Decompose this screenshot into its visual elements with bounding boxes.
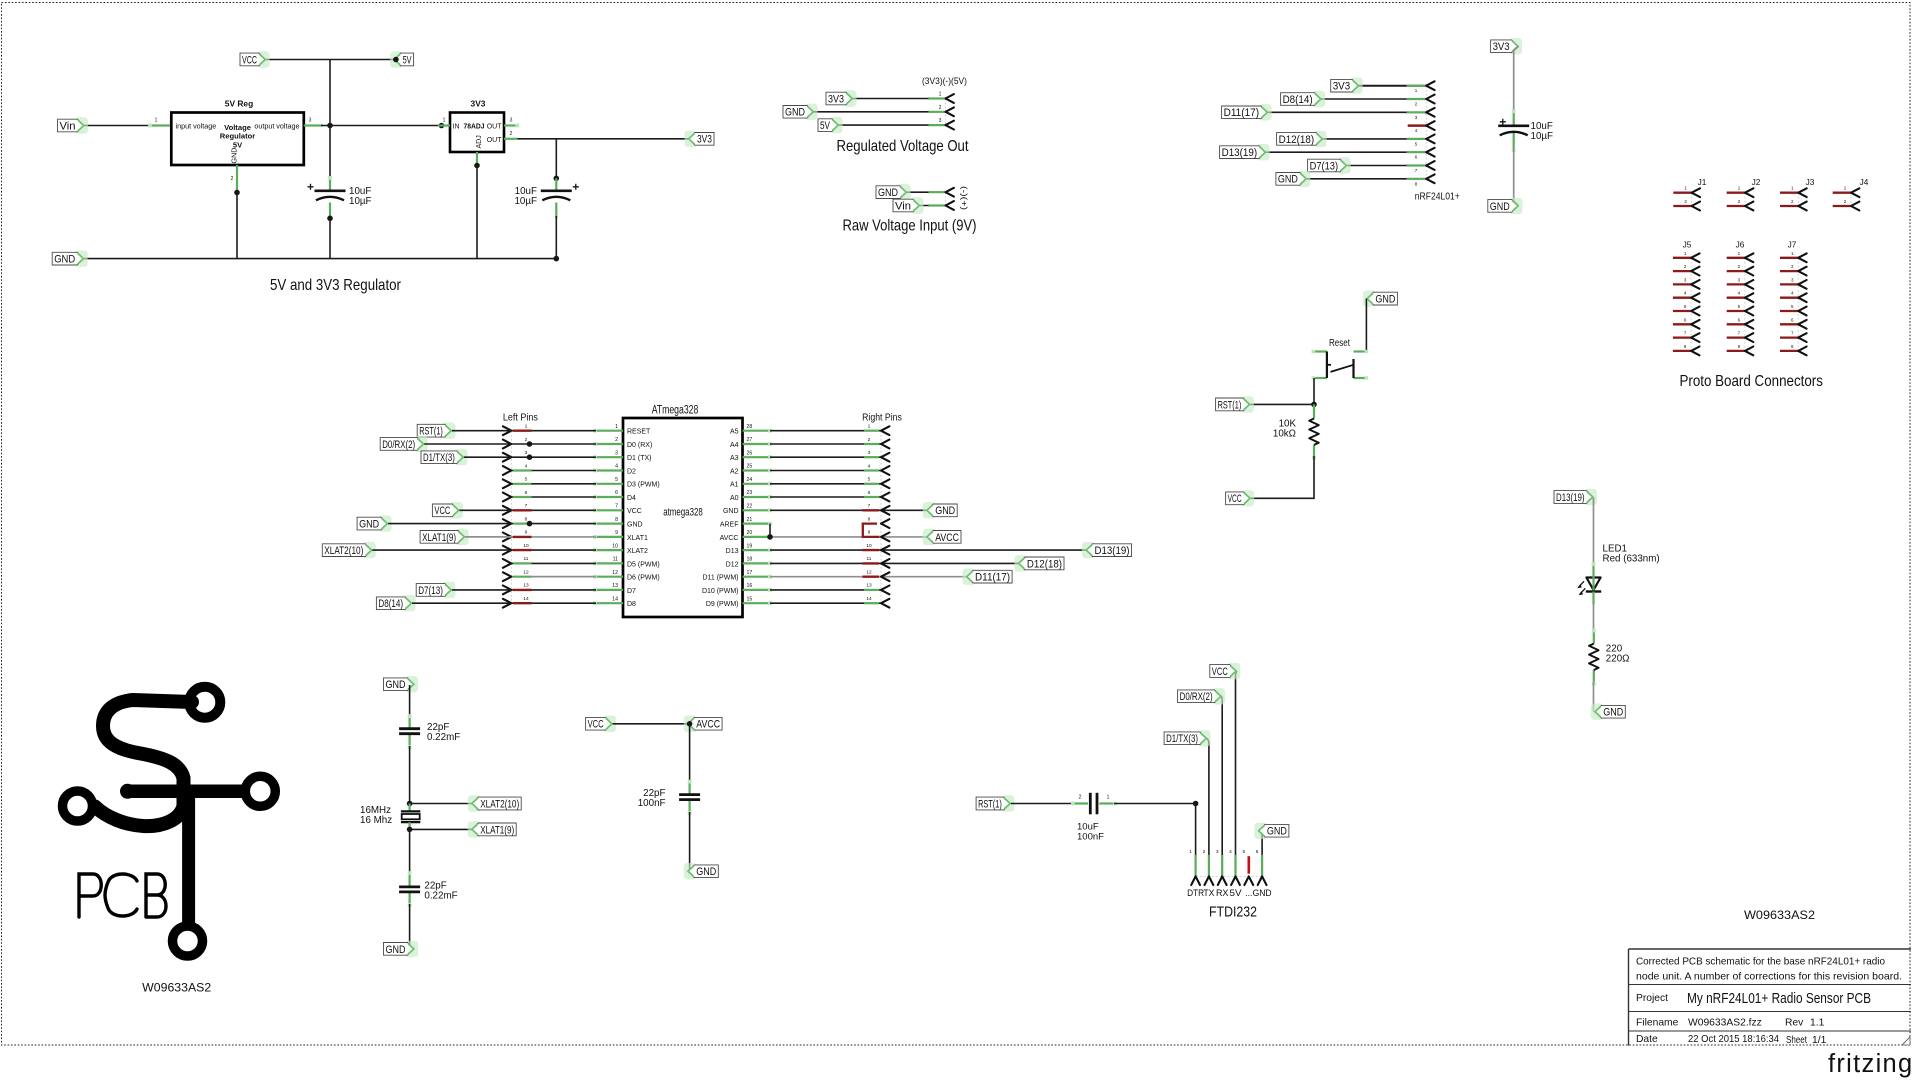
- svg-text:RST(1): RST(1): [1218, 399, 1242, 411]
- ATmega328 pin 13 D7 left row: [503, 583, 623, 595]
- ATmega328 pin 24 A1 right row: [743, 477, 890, 489]
- PCB logo T bar left dot: [120, 784, 135, 799]
- svg-text:A0: A0: [730, 495, 739, 502]
- svg-text:W09633AS2: W09633AS2: [142, 982, 211, 994]
- svg-text:D11(17): D11(17): [1224, 107, 1260, 119]
- svg-text:fritzing: fritzing: [1828, 1050, 1914, 1078]
- svg-text:10: 10: [866, 543, 872, 549]
- ATmega328 pin 19 D13 right row: [743, 543, 1088, 555]
- net label 3V3 (decoupling top): [1491, 38, 1523, 54]
- svg-text:4: 4: [615, 464, 618, 470]
- ATmega328 pin 17 D11 (PWM) right row: [743, 570, 969, 582]
- connector J raw input backbone: [945, 192, 947, 205]
- wire GND to regulated-out pin 2: [811, 111, 946, 113]
- net label D12(18) (nRF24L01+): [1277, 131, 1327, 147]
- net label D8(14) (ATmega): [376, 595, 415, 611]
- svg-text:Regulator: Regulator: [220, 132, 255, 141]
- svg-text:Date: Date: [1636, 1034, 1658, 1045]
- svg-text:GND: GND: [935, 505, 955, 517]
- wire resistor R1 to VCC label: [1251, 456, 1314, 498]
- svg-text:TX: TX: [1203, 888, 1214, 898]
- resistor R1 10K: [1273, 419, 1319, 445]
- wire GND label to GND pin: [1260, 831, 1262, 877]
- svg-text:2: 2: [510, 131, 513, 137]
- svg-text:24: 24: [747, 477, 753, 483]
- raw-input connector pin 1: [929, 188, 954, 197]
- regulator U1 output pin 3: [304, 118, 323, 126]
- svg-text:Regulated Voltage Out: Regulated Voltage Out: [837, 138, 969, 155]
- FTDI232 pin 4 5V: [1229, 849, 1241, 898]
- connector nRF24L01+ backbone: [1425, 86, 1427, 179]
- net label XLAT2(10) (crystal): [468, 795, 522, 811]
- wire C2 to ground rail: [555, 216, 557, 259]
- svg-text:25: 25: [747, 464, 753, 470]
- svg-text:8: 8: [525, 516, 528, 522]
- svg-text:1: 1: [1107, 795, 1110, 801]
- wire junction to XLAT1(9) label: [410, 828, 474, 830]
- svg-text:2: 2: [231, 176, 234, 182]
- wire D7(13) to left pin 13: [452, 589, 512, 591]
- wire crystal to cap C5: [409, 829, 411, 874]
- svg-text:My nRF24L01+ Radio Sensor PCB: My nRF24L01+ Radio Sensor PCB: [1687, 991, 1871, 1007]
- wire 3V3 to regulated-out pin 1: [853, 98, 946, 100]
- svg-text:7: 7: [615, 504, 618, 510]
- svg-text:GND: GND: [696, 866, 716, 878]
- net label 5V (regulator): [390, 51, 414, 67]
- LED1 symbol: [1577, 544, 1659, 605]
- svg-text:D13(19): D13(19): [1095, 545, 1130, 557]
- net label GND (nRF24L01+): [1276, 171, 1311, 187]
- svg-text:11: 11: [524, 556, 529, 562]
- svg-text:Voltage: Voltage: [224, 123, 251, 132]
- svg-text:RX: RX: [1216, 888, 1229, 898]
- svg-text:D0/RX(2): D0/RX(2): [1180, 691, 1213, 703]
- svg-text:11: 11: [867, 556, 872, 562]
- wire C1 to ground rail: [329, 218, 331, 258]
- svg-text:GND: GND: [878, 187, 898, 199]
- ATmega328 pin 16 D10 (PWM) right row: [743, 583, 890, 595]
- svg-text:D8(14): D8(14): [378, 598, 403, 610]
- net label GND (reset): [1363, 290, 1398, 306]
- net label 3V3 (regulator out): [685, 131, 715, 147]
- svg-text:D1 (TX): D1 (TX): [627, 455, 652, 462]
- svg-text:J5: J5: [1683, 240, 1692, 250]
- svg-text:GND: GND: [1278, 174, 1298, 186]
- svg-text:3: 3: [309, 118, 312, 124]
- wire cap C4 to crystal: [409, 746, 411, 804]
- svg-text:ATmega328: ATmega328: [652, 405, 699, 417]
- ATmega328 pin 23 A0 right row: [743, 490, 890, 502]
- svg-text:ADJ: ADJ: [476, 135, 483, 148]
- svg-text:8: 8: [615, 517, 618, 523]
- svg-text:100nF: 100nF: [638, 798, 666, 809]
- ATmega328 pin 28 A5 right row: [743, 424, 890, 436]
- pin terminal C1 bottom: [327, 216, 333, 222]
- net label D12(18) (ATmega right): [1014, 555, 1064, 571]
- net label Vin (raw input): [893, 197, 924, 213]
- capacitor C7 pin stubs: [1071, 795, 1117, 806]
- svg-text:6: 6: [615, 490, 618, 496]
- regulator U2 OUT pin 3 stub: [504, 118, 519, 128]
- net label D7(13) (nRF24L01+): [1308, 157, 1351, 173]
- svg-text:78ADJ: 78ADJ: [464, 122, 485, 131]
- svg-text:1: 1: [155, 118, 158, 124]
- svg-text:26: 26: [747, 450, 753, 456]
- net label GND (crystal top): [384, 676, 419, 692]
- svg-text:14: 14: [866, 596, 872, 602]
- wire GND to left pin 8: [388, 523, 512, 525]
- svg-text:13: 13: [523, 583, 529, 589]
- svg-text:3V3: 3V3: [1493, 41, 1510, 53]
- ATmega328 pin 9 XLAT1 left row: [503, 530, 623, 542]
- svg-text:3V3: 3V3: [828, 93, 844, 105]
- svg-text:D12(18): D12(18): [1027, 558, 1062, 570]
- ATmega328 pin 21 AREF right row: [743, 516, 890, 537]
- wire down to DTR pin: [1195, 804, 1197, 877]
- svg-text:input voltage: input voltage: [176, 121, 217, 130]
- svg-text:6: 6: [525, 490, 528, 496]
- svg-text:XLAT2(10): XLAT2(10): [324, 545, 363, 557]
- net label RST(1) (FTDI): [976, 795, 1014, 811]
- regulator U2 IN pin stub: [438, 118, 450, 126]
- svg-text:XLAT2: XLAT2: [627, 548, 648, 555]
- svg-text:D8(14): D8(14): [1283, 94, 1313, 106]
- junction RST / resistor R1: [1311, 402, 1317, 408]
- junction XLAT1 node: [407, 827, 413, 833]
- svg-text:3V3: 3V3: [471, 99, 486, 109]
- svg-text:D13(19): D13(19): [1222, 147, 1258, 159]
- svg-text:28: 28: [747, 424, 753, 430]
- svg-text:RST(1): RST(1): [978, 798, 1002, 810]
- svg-text:12: 12: [612, 570, 618, 576]
- connector J1: [1673, 177, 1706, 210]
- net label GND (FTDI): [1254, 823, 1289, 839]
- svg-text:VCC: VCC: [1212, 666, 1228, 678]
- wire 3V3 net down to cap C2: [555, 139, 557, 179]
- svg-text:D10 (PWM): D10 (PWM): [702, 588, 739, 595]
- svg-text:XLAT1(9): XLAT1(9): [422, 532, 456, 544]
- net label D13(19) (nRF24L01+): [1220, 144, 1270, 160]
- svg-text:Vin: Vin: [895, 200, 911, 212]
- capacitor C1 pin stubs: [328, 176, 332, 218]
- net label GND (raw input): [876, 184, 911, 200]
- svg-text:GND: GND: [785, 107, 805, 119]
- regulated-out connector pin 3: [929, 118, 954, 129]
- svg-text:15: 15: [747, 596, 753, 602]
- svg-text:(3V3)(-)(5V): (3V3)(-)(5V): [922, 76, 967, 86]
- svg-text:5: 5: [525, 477, 528, 483]
- connector J4: [1833, 177, 1869, 210]
- svg-text:13: 13: [612, 583, 618, 589]
- net label GND (decoupling bottom): [1488, 198, 1523, 214]
- svg-text:7: 7: [525, 503, 528, 509]
- wire 5V to regulated-out pin 3: [839, 124, 946, 126]
- junction 5V label: [393, 57, 399, 63]
- wire cap C7 to FTDI DTR: [1114, 803, 1196, 805]
- svg-text:17: 17: [747, 570, 753, 576]
- wire VCC to left pin 7: [459, 509, 512, 511]
- net label D7(13) (ATmega): [416, 582, 455, 598]
- wire GND label down to pushbutton: [1365, 299, 1367, 352]
- svg-text:A3: A3: [730, 455, 739, 462]
- svg-text:OUT: OUT: [487, 137, 503, 144]
- connector J6: [1727, 240, 1754, 356]
- svg-text:D0 (RX): D0 (RX): [627, 442, 652, 449]
- svg-text:D7(13): D7(13): [1310, 160, 1339, 172]
- capacitor C5 22pF: [399, 880, 458, 901]
- svg-text:D9 (PWM): D9 (PWM): [706, 601, 739, 608]
- svg-text:D11(17): D11(17): [975, 572, 1010, 584]
- wire 5V rail down to cap C1: [329, 126, 331, 180]
- net label GND (regulator rail): [52, 250, 87, 266]
- svg-text:atmega328: atmega328: [663, 506, 703, 518]
- wire VCC to 5V rail: [266, 59, 396, 61]
- PCB logo text PCB: [79, 874, 166, 917]
- net label D13(19) (LED): [1554, 489, 1597, 505]
- svg-text:4: 4: [868, 463, 871, 469]
- svg-text:10: 10: [523, 543, 529, 549]
- FTDI232 pin 6 GND: [1253, 849, 1272, 898]
- svg-text:RESET: RESET: [627, 429, 651, 436]
- svg-text:D8: D8: [627, 601, 636, 608]
- svg-text:6: 6: [1256, 849, 1259, 855]
- svg-text:21: 21: [747, 517, 753, 523]
- svg-text:5V: 5V: [820, 120, 830, 132]
- wire D11(17) to nRF pin 3: [1268, 111, 1426, 113]
- page corner fold bottom-right: [1902, 1037, 1910, 1045]
- wire D0/RX(2) label to RX pin: [1221, 696, 1224, 876]
- svg-text:OUT: OUT: [487, 123, 503, 130]
- capacitor C7 10uF/100nF series: [1077, 793, 1104, 843]
- net label RST(1) (reset): [1216, 396, 1254, 412]
- wire D13(19) to nRF pin 6: [1266, 151, 1426, 153]
- svg-text:11: 11: [613, 557, 618, 563]
- svg-text:XLAT1(9): XLAT1(9): [480, 824, 514, 836]
- pin terminal 3V3 reg IN: [439, 123, 445, 129]
- capacitor C2 10uF: [514, 184, 578, 207]
- IC U3 ATmega328 box: [623, 405, 743, 617]
- svg-text:8: 8: [868, 516, 871, 522]
- PCB logo pad right: [245, 776, 275, 806]
- resistor R2 pin stubs: [1592, 629, 1596, 686]
- wire red AREF-AVCC bracket: [863, 524, 880, 537]
- ATmega328 pin 27 A4 right row: [743, 437, 890, 449]
- svg-text:D11 (PWM): D11 (PWM): [702, 575, 738, 582]
- svg-text:3: 3: [868, 450, 871, 456]
- svg-text:5V: 5V: [1230, 888, 1242, 898]
- svg-text:4: 4: [1229, 849, 1232, 855]
- svg-text:Sheet: Sheet: [1786, 1035, 1807, 1046]
- ATmega328 pin 10 XLAT2 left row: [503, 543, 623, 555]
- ATmega328 pin 26 A3 right row: [743, 450, 890, 462]
- svg-text:D0/RX(2): D0/RX(2): [382, 439, 415, 451]
- svg-text:5: 5: [615, 477, 618, 483]
- left pins connector backbone: [510, 431, 512, 604]
- ATmega328 pin 4 D2 left row: [503, 463, 623, 475]
- svg-text:10µF: 10µF: [349, 196, 372, 207]
- svg-text:10µF: 10µF: [514, 196, 537, 207]
- ATmega328 pin 14 D8 left row: [503, 596, 623, 608]
- svg-text:D1/TX(3): D1/TX(3): [1166, 733, 1198, 745]
- svg-text:GND: GND: [54, 254, 75, 266]
- net label GND (LED): [1591, 704, 1626, 720]
- svg-text:D2: D2: [627, 468, 636, 475]
- svg-text:VCC: VCC: [434, 505, 450, 517]
- net label VCC (reset): [1226, 490, 1255, 506]
- svg-text:GND: GND: [386, 944, 406, 956]
- net label 3V3 (nRF24L01+): [1331, 78, 1363, 94]
- svg-text:AVCC: AVCC: [935, 532, 959, 544]
- ATmega328 pin 25 A2 right row: [743, 463, 890, 475]
- svg-text:2: 2: [525, 437, 528, 443]
- capacitor C4 pin stubs: [408, 714, 412, 749]
- svg-text:14: 14: [523, 596, 529, 602]
- svg-text:18: 18: [747, 557, 753, 563]
- ATmega328 pin 2 D0 (RX) left row: [503, 437, 623, 449]
- svg-text:D7(13): D7(13): [418, 585, 443, 597]
- svg-text:Proto Board Connectors: Proto Board Connectors: [1679, 373, 1823, 390]
- wire D12(18) to nRF pin 5: [1323, 138, 1426, 140]
- svg-text:J3: J3: [1806, 177, 1815, 187]
- svg-text:10kΩ: 10kΩ: [1273, 429, 1296, 440]
- svg-text:XLAT1: XLAT1: [627, 535, 648, 542]
- svg-text:100nF: 100nF: [1077, 832, 1104, 843]
- wire D0/RX(2) to left pin 2: [424, 443, 512, 445]
- connector J2: [1727, 177, 1761, 210]
- svg-text:D4: D4: [627, 495, 636, 502]
- svg-text:D3 (PWM): D3 (PWM): [627, 482, 660, 489]
- net label RST(1) (ATmega): [417, 423, 455, 439]
- svg-text:14: 14: [612, 596, 618, 602]
- wire junction to XLAT2(10) label: [410, 803, 474, 805]
- regulator U1 GND pin 2: [231, 165, 237, 193]
- wire D7(13) to nRF pin 7: [1347, 165, 1426, 167]
- svg-text:Rev: Rev: [1785, 1018, 1804, 1029]
- svg-text:23: 23: [747, 490, 753, 496]
- svg-text:...: ...: [1245, 888, 1252, 898]
- net label VCC (FTDI): [1210, 663, 1241, 679]
- capacitor C6 100nF: [638, 788, 700, 809]
- net label D0/RX(2) (FTDI): [1178, 688, 1226, 704]
- svg-text:GND: GND: [723, 508, 739, 515]
- svg-text:Left Pins: Left Pins: [503, 412, 538, 423]
- right pins connector backbone: [880, 431, 882, 604]
- svg-text:(-)(+): (-)(+): [960, 186, 970, 210]
- wire 3V3 to nRF pin 1: [1359, 85, 1426, 87]
- svg-text:1/1: 1/1: [1812, 1035, 1827, 1046]
- net label GND (AVCC coupling): [684, 863, 719, 879]
- wire GND to raw-input pin 1: [907, 191, 946, 193]
- ATmega328 pin 3 D1 (TX) left row: [503, 450, 623, 462]
- svg-text:node unit. A number of correct: node unit. A number of corrections for t…: [1636, 972, 1902, 983]
- net label XLAT1(9) (ATmega): [420, 529, 469, 545]
- svg-text:1: 1: [615, 424, 618, 430]
- svg-text:D1/TX(3): D1/TX(3): [423, 452, 455, 464]
- net label GND (ATmega right): [923, 502, 958, 518]
- PCB logo pad left: [63, 791, 93, 821]
- svg-text:FTDI232: FTDI232: [1209, 904, 1257, 921]
- svg-text:1: 1: [443, 118, 446, 124]
- net label GND (ATmega): [357, 515, 392, 531]
- FTDI232 pin 5 ...: [1242, 849, 1253, 898]
- ATmega328 pin 12 D6 (PWM) left row: [503, 570, 623, 582]
- regulated-out connector pin 2: [929, 105, 954, 116]
- wire Vin to raw-input pin 2: [920, 205, 946, 207]
- svg-text:2: 2: [615, 437, 618, 443]
- svg-text:5: 5: [868, 477, 871, 483]
- svg-text:5V and 3V3 Regulator: 5V and 3V3 Regulator: [270, 277, 402, 294]
- resistor R1 pin stubs: [1312, 404, 1316, 459]
- svg-text:GND: GND: [1603, 707, 1623, 719]
- svg-text:GND: GND: [1375, 294, 1395, 306]
- wire RST(1) to left pin 1: [452, 430, 512, 432]
- svg-text:XLAT2(10): XLAT2(10): [480, 798, 519, 810]
- voltage regulator U1 5V Reg box: [171, 99, 303, 166]
- resistor R2 220: [1589, 644, 1629, 670]
- crystal Y1 16MHz: [360, 804, 420, 830]
- net label D8(14) (nRF24L01+): [1281, 91, 1326, 107]
- net label D0/RX(2) (ATmega): [380, 436, 428, 452]
- net label XLAT1(9) (crystal): [468, 821, 517, 837]
- net label VCC (ATmega): [432, 502, 463, 518]
- svg-text:3: 3: [510, 118, 513, 124]
- net label 3V3 (reg out): [826, 90, 857, 106]
- svg-text:D5 (PWM): D5 (PWM): [627, 561, 660, 568]
- connector J5: [1673, 240, 1700, 356]
- wire XLAT2(10) to left pin 10: [372, 549, 512, 551]
- PCB logo pad top-right: [189, 687, 220, 718]
- capacitor C3 pin stubs: [1512, 109, 1516, 152]
- wire pushbutton to RST junction: [1313, 378, 1315, 404]
- svg-text:Filename: Filename: [1636, 1018, 1679, 1029]
- net label D1/TX(3) (ATmega): [421, 449, 467, 465]
- svg-text:1.1: 1.1: [1810, 1018, 1825, 1029]
- svg-text:27: 27: [747, 437, 753, 443]
- svg-text:1: 1: [525, 424, 528, 430]
- junction XLAT2 node: [407, 801, 413, 807]
- svg-text:D13: D13: [726, 548, 739, 555]
- PCB logo trace S with left pad: [95, 700, 192, 826]
- wire U2 OUT to 3V3 label: [517, 138, 688, 140]
- svg-text:GND: GND: [230, 148, 239, 164]
- svg-text:Corrected PCB schematic for th: Corrected PCB schematic for the base nRF…: [1636, 957, 1885, 968]
- capacitor C1 10uF: [308, 184, 372, 207]
- svg-text:5V Reg: 5V Reg: [225, 99, 253, 109]
- wire GND to cap C4: [409, 685, 411, 717]
- svg-text:A2: A2: [730, 468, 739, 475]
- svg-text:Reset: Reset: [1329, 338, 1350, 349]
- regulated-out connector pin 1: [929, 92, 954, 103]
- net label D13(19) (ATmega right): [1082, 542, 1132, 558]
- net label AVCC (ATmega right): [923, 529, 961, 545]
- svg-text:10µF: 10µF: [1531, 131, 1554, 142]
- PCB logo pad bottom: [173, 926, 203, 956]
- capacitor C5 pin stubs: [408, 871, 412, 907]
- regulator U2 OUT pin 2 stub: [504, 131, 517, 139]
- PCB logo T horizontal bar: [128, 785, 243, 799]
- svg-text:D12: D12: [726, 561, 739, 568]
- svg-text:3: 3: [615, 450, 618, 456]
- svg-text:nRF24L01+: nRF24L01+: [1415, 190, 1460, 202]
- wire GND to nRF pin 8: [1307, 178, 1426, 180]
- pin terminal U2 ADJ: [474, 163, 480, 169]
- svg-text:J2: J2: [1752, 177, 1761, 187]
- svg-text:J7: J7: [1788, 240, 1797, 250]
- svg-text:GND: GND: [359, 519, 379, 531]
- wire 3V3 label down to cap C3: [1514, 46, 1519, 112]
- svg-text:output voltage: output voltage: [254, 121, 299, 130]
- net label 5V (reg out): [818, 117, 843, 133]
